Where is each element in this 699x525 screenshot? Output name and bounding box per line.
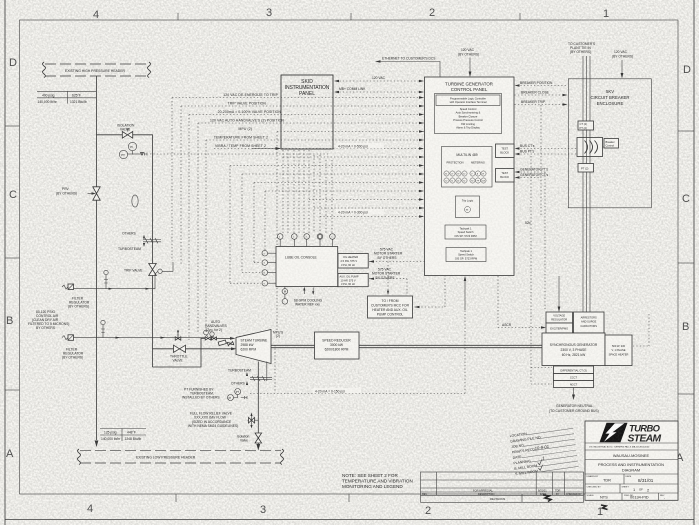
console bottom instruments — [282, 287, 288, 305]
wire to differential CT and NGCT — [531, 156, 552, 384]
5kv circuit breaker enclosure — [568, 79, 651, 208]
title block frame — [585, 421, 678, 500]
throttle valve line — [153, 348, 235, 350]
bus to generator — [583, 172, 590, 312]
throttle valve — [174, 345, 180, 352]
wire MPU (2) — [277, 131, 424, 133]
lp steam table — [100, 428, 146, 430]
wire MCC box to TGCP — [415, 276, 446, 307]
instrument PI/PT at line — [128, 142, 136, 150]
existing low pressure header — [80, 450, 281, 452]
NGCT — [554, 381, 594, 388]
wire breaker trip — [515, 104, 566, 106]
wire vibra/temp from sheet 2 — [214, 148, 424, 150]
ownership boundary on inlet pipe — [143, 238, 161, 243]
wire space heater feed — [633, 314, 649, 346]
zone ticks top — [177, 13, 179, 20]
speed reducer — [315, 332, 360, 359]
wire temperature from sheet 2 — [206, 139, 424, 141]
CT/PT block — [578, 121, 594, 130]
wire bus PT — [517, 153, 582, 155]
wire breaker position — [517, 85, 568, 87]
arrestors and surge capacitors — [574, 312, 605, 333]
CCCT — [554, 374, 594, 381]
wire aux oil pump control to MCC — [369, 279, 407, 295]
turbine exhaust pipe — [257, 362, 259, 447]
synchronous generator — [542, 333, 605, 366]
wire generator CT — [517, 177, 541, 179]
tachpak speed switch 1 — [445, 225, 486, 239]
cooling water arrows — [304, 288, 313, 295]
wire 120 VAC skid feed — [336, 80, 422, 82]
wire ASCR to exciter — [498, 276, 544, 328]
logo TurboSteam — [600, 423, 628, 442]
drops to lube console left instruments — [230, 166, 261, 284]
wire MPU drop to turbine — [276, 132, 278, 331]
aux oil pump box — [338, 274, 368, 287]
shaft turbine to reducer — [271, 345, 315, 347]
breaker control — [604, 139, 619, 149]
multilin 489 relay — [442, 147, 493, 188]
handwritten oval — [132, 195, 138, 207]
wire 120 VAC auto handvalve position — [198, 122, 424, 124]
differential CT — [554, 366, 594, 374]
steam turbine — [236, 330, 271, 364]
PT block — [583, 157, 590, 164]
wire drop from breaker close/trip — [540, 105, 542, 215]
title block — [421, 421, 679, 510]
wire oil heater control to MCC — [369, 262, 452, 296]
outer paper border — [4, 0, 6, 525]
drawn by / date — [623, 474, 625, 484]
test block 2 — [496, 169, 515, 183]
stray pen scribbles — [543, 495, 551, 502]
space heater — [605, 335, 632, 366]
ethernet to customers DCS — [378, 62, 440, 78]
wire bus CT — [517, 148, 582, 150]
main steam pipe from header — [96, 76, 98, 440]
bus riser — [583, 56, 590, 121]
zone ticks right — [678, 130, 694, 132]
wire exhaust PT 4-20mA to TGCP — [250, 310, 465, 394]
shaft reducer to generator — [359, 345, 542, 347]
turbine generator control panel — [425, 77, 515, 276]
vertical drops of bundle 2 to lube oil console — [282, 150, 284, 233]
oil heater box — [338, 254, 368, 269]
electrical right side — [334, 42, 651, 413]
existing high pressure header — [45, 63, 148, 65]
arrowheads into TGCP left edge — [419, 96, 424, 217]
control air filter regulator 2 — [62, 336, 68, 340]
strainer on bypass — [218, 340, 226, 346]
wire PT sensing line near isolation valve — [150, 153, 330, 155]
voltage regulator — [546, 312, 573, 323]
PLC block — [435, 94, 502, 134]
breaker 52 — [577, 138, 603, 157]
zone ticks bottom — [175, 494, 177, 502]
trip logic block — [456, 196, 480, 218]
wire MB+ comm link — [336, 91, 422, 93]
lube oil console — [276, 247, 338, 287]
gauge on air line A — [104, 270, 108, 274]
control air filter regulator 1 — [62, 285, 68, 289]
exhaust isolation valve — [255, 433, 262, 438]
dashed signal bundles — [150, 93, 649, 394]
revisions table — [421, 472, 584, 502]
vertical drops from bundle 1 to valves — [171, 98, 173, 262]
skid instrumentation panel — [281, 75, 333, 149]
exciter/pmg — [546, 323, 573, 333]
console left instruments — [262, 250, 276, 286]
MCC control box — [368, 296, 413, 318]
PRV (by others) — [93, 187, 100, 194]
isolation valve branch — [97, 135, 153, 367]
trip valve — [149, 264, 157, 270]
zone ticks left — [5, 125, 20, 127]
gauge on air line B — [101, 320, 105, 324]
hp steam table — [37, 90, 96, 92]
wire generator PT — [517, 172, 545, 310]
full flow relief valve — [248, 414, 259, 427]
feed into voltage regulator — [558, 276, 560, 309]
exhaust PT instruments — [235, 389, 241, 395]
wire breaker close — [515, 94, 566, 96]
label 4-20 mA = 0-500 psi — [336, 143, 384, 148]
bypass loop — [153, 338, 234, 367]
isolation valve — [122, 132, 127, 139]
received stamp (handwritten, slanted) — [509, 425, 578, 476]
scale / dwg no / rev — [621, 493, 623, 500]
checked by / sheet — [619, 484, 621, 493]
tachpak speed switch 2 — [446, 248, 486, 262]
ownership boundary on exhaust — [250, 376, 272, 381]
wire 120 VAC de-energize to trip — [172, 97, 424, 99]
wire trip valve position — [181, 105, 424, 107]
console top instruments — [277, 234, 335, 247]
generator neutral — [573, 388, 575, 397]
panels and equipment — [78, 75, 543, 489]
label 4-20 mA = 0-300 psi — [336, 209, 384, 214]
steam piping — [28, 62, 237, 447]
wire 20-200mA valve position — [189, 114, 424, 116]
bundle 2: lines below skid into TGCP — [283, 156, 424, 158]
solid entry of vibra/temp line into skid panel — [252, 148, 278, 150]
air line B to throttle and handvalves — [74, 334, 208, 338]
auto handvalve — [204, 330, 209, 335]
air line A to trip valve — [74, 271, 158, 288]
test block 1 — [496, 144, 515, 158]
pilot valve above throttle — [175, 337, 178, 340]
